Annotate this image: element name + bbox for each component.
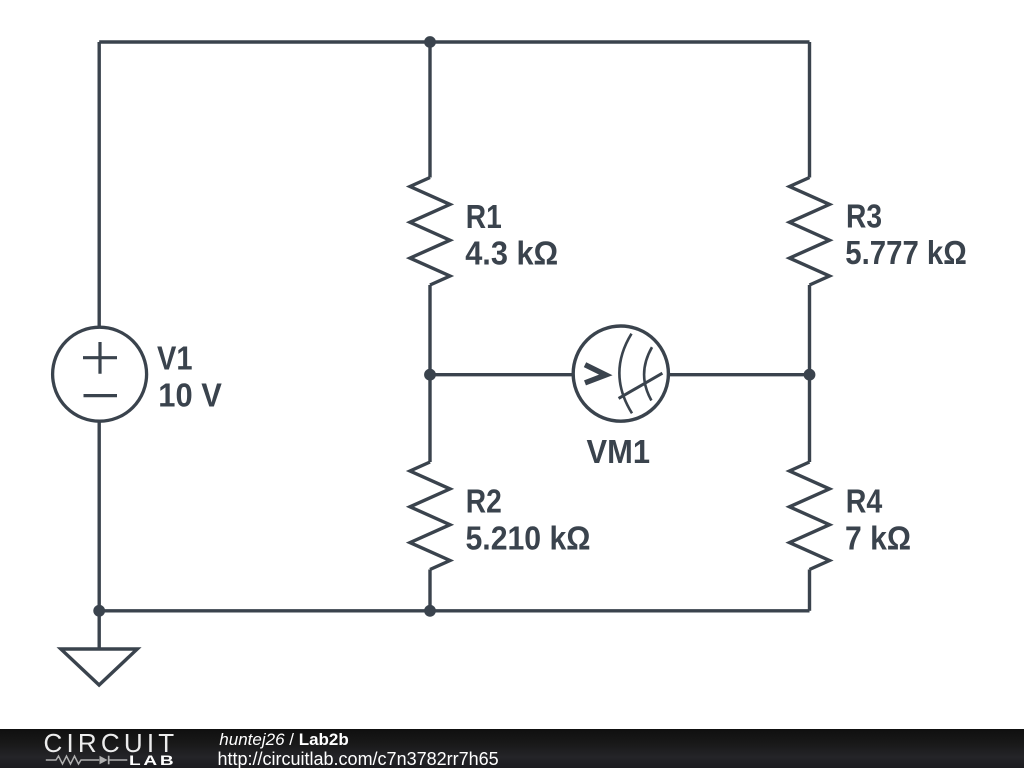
VM1 dial short arc <box>644 347 652 400</box>
junction node mid (R1/R2/VM) <box>424 369 436 381</box>
wire middle branch (mid node to R2) <box>428 375 431 462</box>
svg-text:4.3 kΩ: 4.3 kΩ <box>465 235 558 272</box>
svg-text:R1: R1 <box>466 198 502 235</box>
wire voltmeter to right node <box>669 373 810 376</box>
wire left vertical (V1 to bottom rail) <box>97 421 100 611</box>
wire left vertical (top rail to V1) <box>97 42 100 328</box>
wire bottom horizontal <box>99 609 809 612</box>
voltage source V1 circle <box>53 327 147 421</box>
resistor R4 <box>790 462 830 570</box>
wire right branch (R3 to right node) <box>808 285 811 375</box>
svg-text:R3: R3 <box>846 198 882 235</box>
resistor R3 <box>790 178 830 286</box>
wire right branch bottom (R4 to bottom rail) <box>808 570 811 611</box>
CircuitLab logo resistor-diode squiggle <box>45 753 129 767</box>
wire middle branch (R1 to mid node) <box>428 285 431 375</box>
wire right branch (right node to R4) <box>808 375 811 462</box>
svg-text:5.777 kΩ: 5.777 kΩ <box>845 234 967 271</box>
V1 plus sign <box>83 342 117 374</box>
svg-text:R4: R4 <box>846 483 883 520</box>
footer title huntej26 / Lab2b <box>219 730 348 750</box>
resistor R2 <box>410 462 450 570</box>
svg-text:V1: V1 <box>157 339 193 376</box>
svg-text:R2: R2 <box>466 483 502 520</box>
VM1 dial long arc <box>619 334 632 414</box>
V1 minus sign <box>84 394 118 397</box>
VM1 needle <box>619 373 663 398</box>
wire right branch top (rail to R3) <box>808 42 811 178</box>
svg-text:10 V: 10 V <box>158 376 222 413</box>
ground symbol <box>61 649 138 685</box>
svg-text:VM1: VM1 <box>587 433 651 470</box>
junction node right (R3/R4/VM) <box>804 369 816 381</box>
svg-text:5.210 kΩ: 5.210 kΩ <box>466 519 591 556</box>
wire mid node to voltmeter <box>430 373 573 376</box>
wire middle branch bottom (R2 to bottom rail) <box>428 570 431 611</box>
junction node top rail / R1 <box>424 36 436 48</box>
resistor R1 <box>410 178 450 286</box>
footer bar <box>0 729 1024 768</box>
CircuitLab logo LAB <box>129 752 176 768</box>
footer url <box>218 749 499 768</box>
wire top horizontal <box>99 40 809 43</box>
CircuitLab logo CIRCUIT <box>44 728 179 759</box>
voltmeter VM1 circle <box>573 326 668 421</box>
junction node bottom left (ground) <box>93 605 105 617</box>
svg-text:7 kΩ: 7 kΩ <box>845 519 911 556</box>
VM1 chevron > <box>585 365 606 383</box>
junction node bottom mid (R2) <box>424 605 436 617</box>
wire ground stub <box>97 611 100 649</box>
wire middle branch top (rail to R1) <box>428 42 431 178</box>
